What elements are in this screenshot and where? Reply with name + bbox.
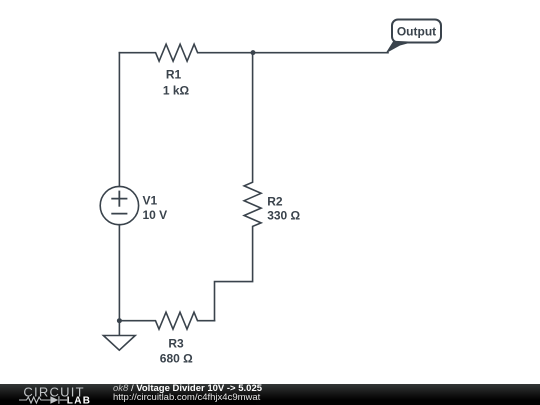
svg-text:R1: R1 — [166, 68, 182, 82]
svg-text:V1: V1 — [143, 194, 158, 208]
svg-text:Output: Output — [397, 24, 436, 38]
svg-text:R2: R2 — [267, 195, 283, 209]
svg-text:LAB: LAB — [67, 396, 91, 405]
svg-text:10 V: 10 V — [143, 208, 168, 222]
svg-text:330 Ω: 330 Ω — [267, 208, 300, 222]
svg-text:680 Ω: 680 Ω — [160, 352, 193, 366]
svg-text:R3: R3 — [168, 337, 184, 351]
svg-text:1 kΩ: 1 kΩ — [163, 83, 190, 97]
